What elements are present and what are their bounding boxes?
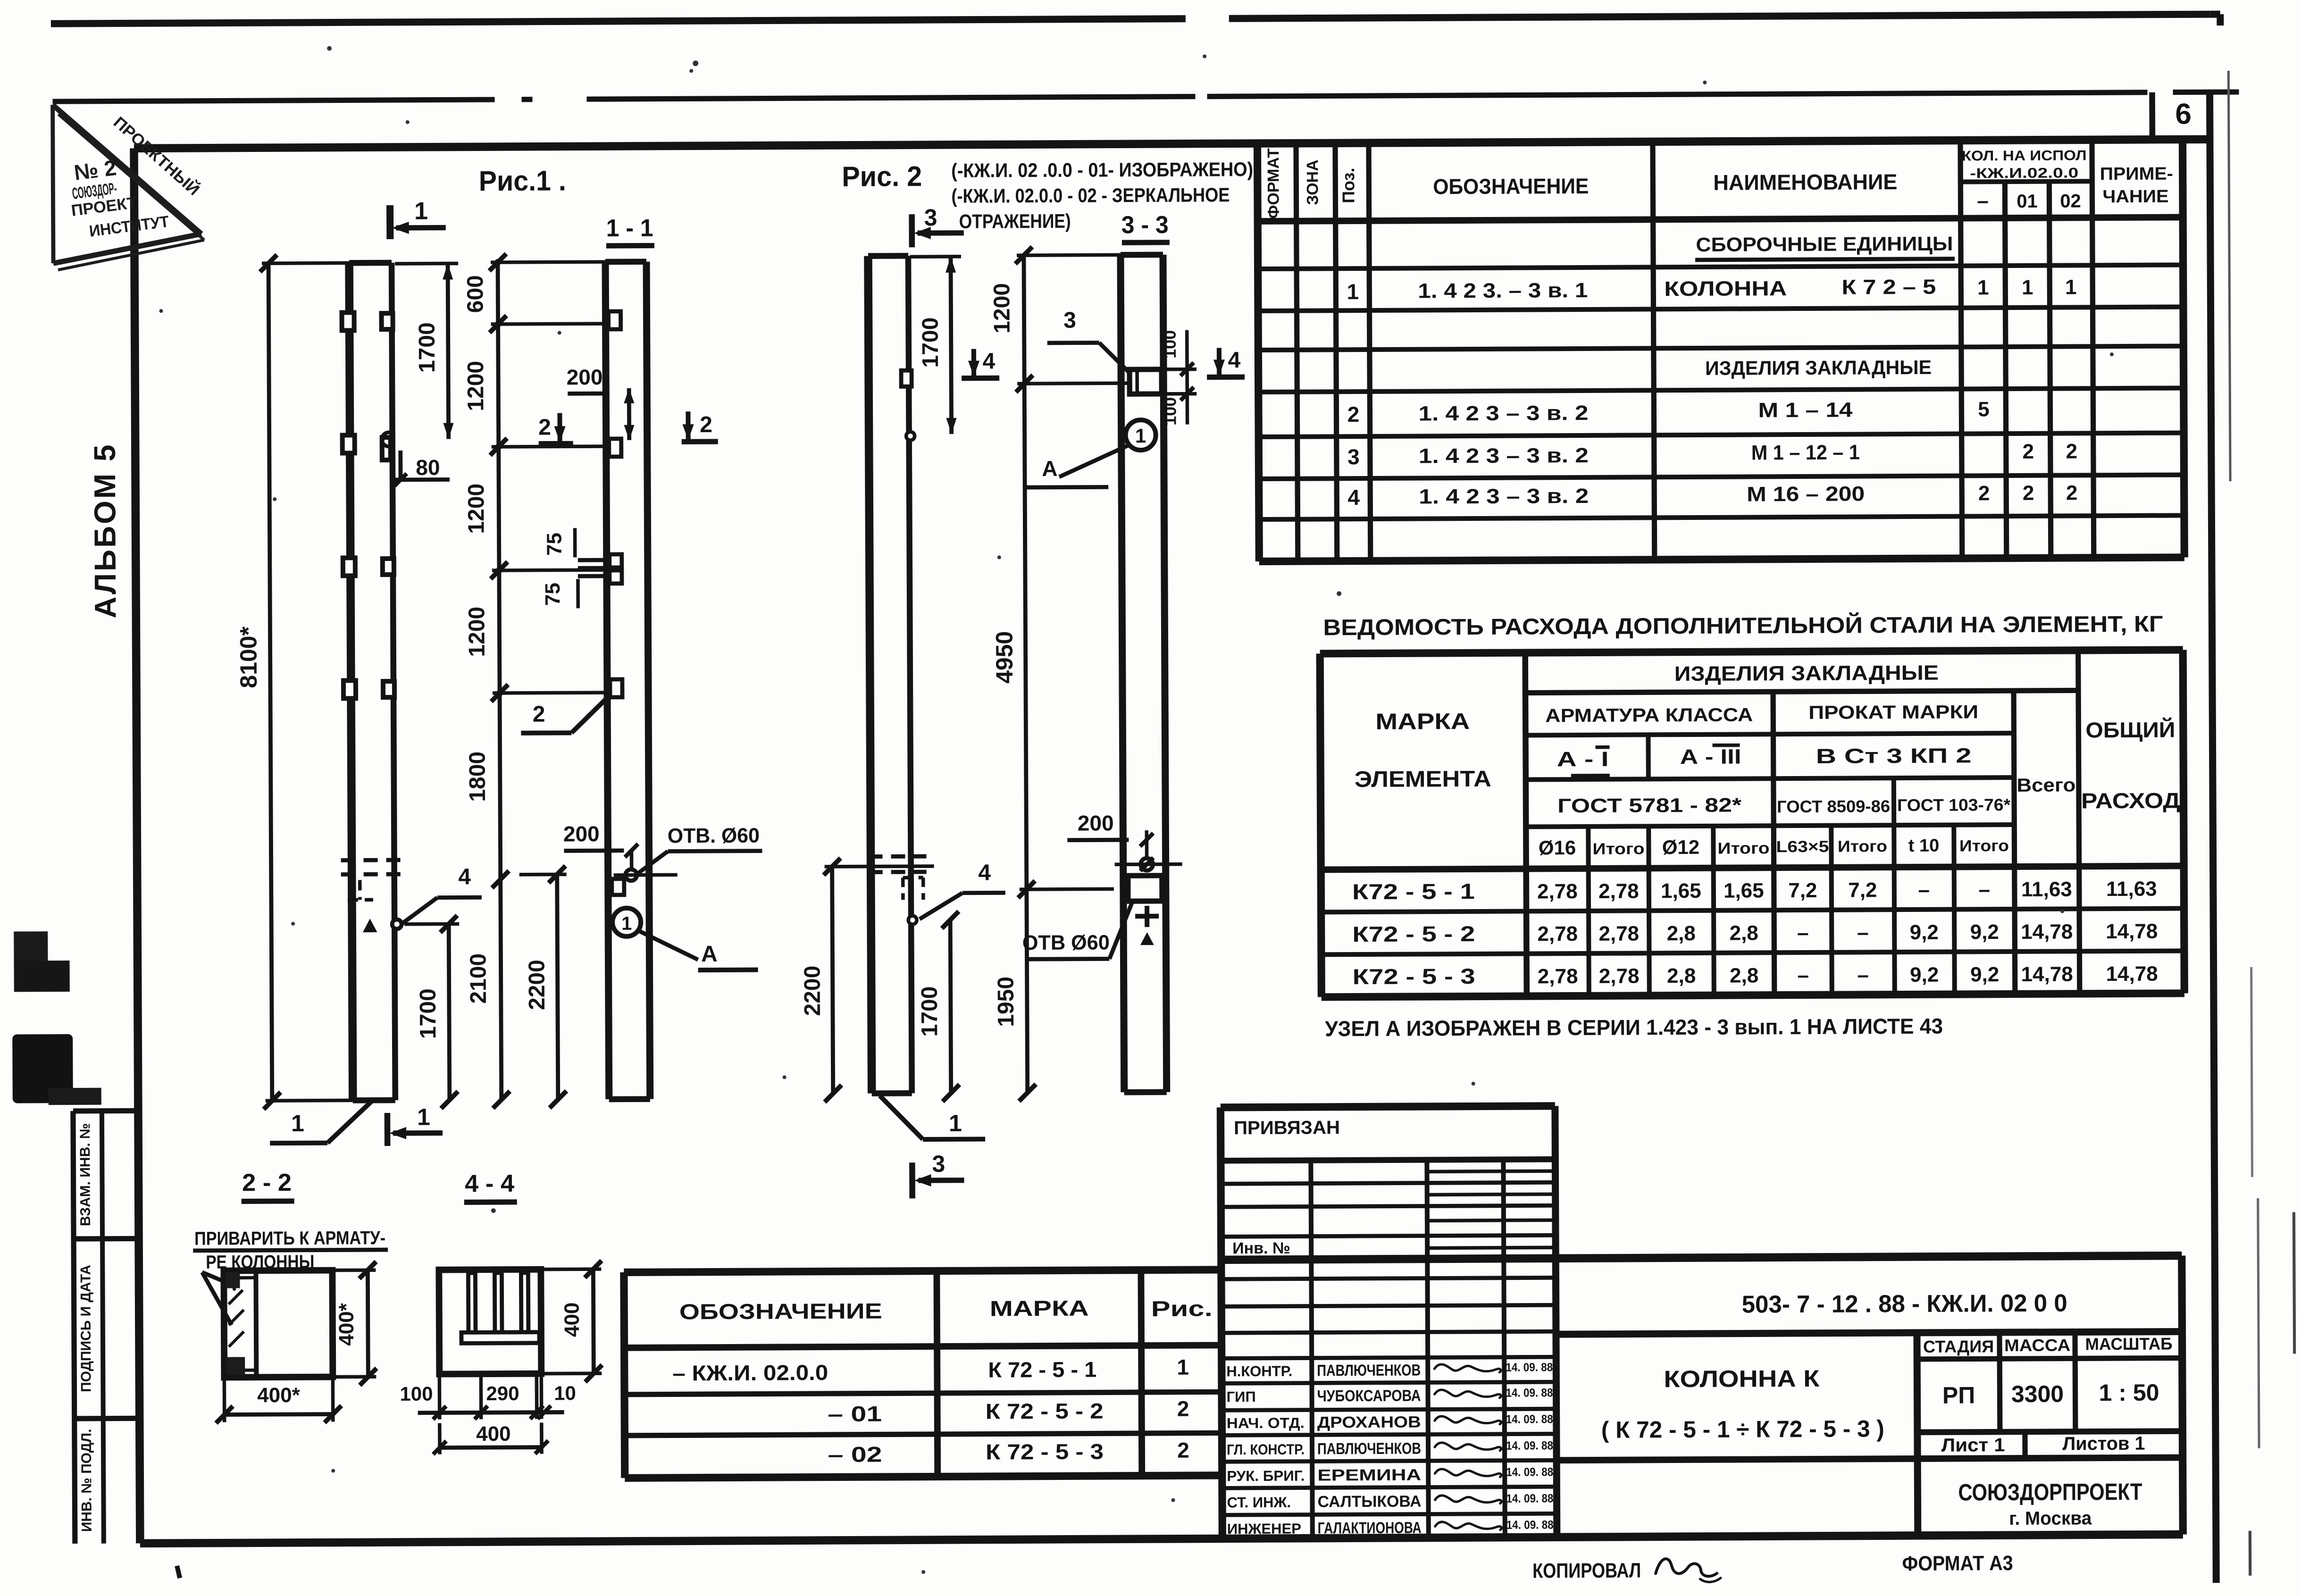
svg-text:РАСХОД: РАСХОД [2081, 788, 2180, 813]
svg-text:КОПИРОВАЛ: КОПИРОВАЛ [1532, 1559, 1641, 1582]
svg-text:ПРОКАТ МАРКИ: ПРОКАТ МАРКИ [1808, 702, 1978, 723]
svg-text:–: – [1977, 189, 1989, 212]
svg-text:1200: 1200 [989, 283, 1014, 334]
svg-text:ПРИВЯЗАН: ПРИВЯЗАН [1234, 1117, 1340, 1138]
svg-text:8100*: 8100* [235, 626, 262, 688]
svg-text:САЛТЫКОВА: САЛТЫКОВА [1317, 1493, 1421, 1511]
svg-text:4: 4 [982, 349, 995, 374]
svg-text:СТАДИЯ: СТАДИЯ [1923, 1337, 1994, 1356]
svg-text:14. 09. 88: 14. 09. 88 [1506, 1361, 1553, 1374]
svg-text:2: 2 [2023, 482, 2034, 505]
svg-text:02: 02 [2060, 191, 2081, 211]
svg-text:СБОРОЧНЫЕ ЕДИНИЦЫ: СБОРОЧНЫЕ ЕДИНИЦЫ [1696, 233, 1953, 256]
svg-text:1: 1 [1135, 425, 1146, 447]
svg-text:400*: 400* [257, 1384, 301, 1407]
svg-text:1950: 1950 [994, 977, 1019, 1027]
svg-text:80: 80 [416, 455, 440, 480]
svg-text:Н.КОНТР.: Н.КОНТР. [1226, 1363, 1292, 1380]
svg-text:01: 01 [2017, 191, 2038, 212]
svg-text:КОЛОННА: КОЛОННА [1664, 277, 1787, 301]
svg-text:14. 09. 88: 14. 09. 88 [1506, 1492, 1553, 1505]
svg-text:2 - 2: 2 - 2 [242, 1169, 292, 1196]
svg-text:РУК. БРИГ.: РУК. БРИГ. [1227, 1468, 1305, 1485]
svg-text:К 72 - 5 - 3: К 72 - 5 - 3 [986, 1439, 1104, 1464]
svg-text:Рис.: Рис. [1151, 1296, 1213, 1321]
svg-text:4: 4 [978, 860, 991, 885]
svg-text:А: А [1042, 456, 1057, 481]
svg-text:ИНВ. № ПОДЛ.: ИНВ. № ПОДЛ. [79, 1429, 95, 1532]
svg-text:200: 200 [1078, 811, 1114, 835]
svg-text:ФОРМАТ: ФОРМАТ [1264, 148, 1283, 219]
svg-text:М 16 – 200: М 16 – 200 [1747, 482, 1865, 506]
svg-text:14. 09. 88: 14. 09. 88 [1506, 1412, 1553, 1426]
svg-text:К72 - 5 - 1: К72 - 5 - 1 [1352, 879, 1475, 904]
svg-text:ПОДПИСЬ И ДАТА: ПОДПИСЬ И ДАТА [78, 1265, 94, 1392]
svg-text:К 72 - 5 - 2: К 72 - 5 - 2 [986, 1398, 1104, 1423]
svg-text:–: – [1857, 921, 1869, 944]
svg-text:1200: 1200 [464, 607, 489, 657]
svg-text:4950: 4950 [991, 631, 1017, 684]
svg-text:НАИМЕНОВАНИЕ: НАИМЕНОВАНИЕ [1713, 169, 1897, 195]
svg-text:3300: 3300 [2011, 1381, 2064, 1407]
svg-text:СОЮЗДОРПРОЕКТ: СОЮЗДОРПРОЕКТ [1958, 1479, 2142, 1506]
svg-text:К72 - 5 - 3: К72 - 5 - 3 [1353, 964, 1475, 989]
svg-text:Итого: Итого [1717, 839, 1769, 857]
svg-text:ГОСТ 8509-86: ГОСТ 8509-86 [1777, 796, 1890, 816]
svg-text:75: 75 [543, 533, 566, 556]
svg-text:ФОРМАТ А3: ФОРМАТ А3 [1902, 1552, 2013, 1575]
svg-text:2: 2 [1177, 1396, 1189, 1421]
svg-text:АРМАТУРА КЛАССА: АРМАТУРА КЛАССА [1545, 704, 1753, 726]
svg-text:2,78: 2,78 [1537, 922, 1578, 945]
svg-text:14,78: 14,78 [2106, 920, 2158, 943]
svg-text:Рис. 2: Рис. 2 [842, 160, 922, 192]
svg-text:1: 1 [417, 1104, 430, 1130]
svg-text:2: 2 [1347, 402, 1360, 426]
svg-text:2: 2 [1177, 1438, 1189, 1462]
svg-text:КОЛОННА К: КОЛОННА К [1664, 1365, 1820, 1392]
svg-text:РП: РП [1942, 1382, 1975, 1408]
svg-text:А - I: А - I [1557, 748, 1609, 771]
svg-text:Ø16: Ø16 [1539, 836, 1576, 859]
svg-text:В Ст 3 КП 2: В Ст 3 КП 2 [1816, 744, 1972, 768]
svg-text:–: – [1979, 878, 1991, 901]
svg-text:А: А [701, 942, 718, 967]
svg-text:1: 1 [949, 1110, 962, 1136]
svg-text:–: – [1857, 963, 1869, 986]
svg-text:М 1 – 14: М 1 – 14 [1758, 399, 1853, 422]
svg-text:2: 2 [2066, 440, 2077, 463]
svg-text:1700: 1700 [415, 322, 440, 373]
svg-text:ГОСТ 103-76*: ГОСТ 103-76* [1897, 795, 2010, 815]
svg-text:1700: 1700 [416, 988, 441, 1039]
svg-text:7,2: 7,2 [1848, 878, 1877, 902]
svg-text:ГАЛАКТИОНОВА: ГАЛАКТИОНОВА [1318, 1519, 1422, 1538]
svg-text:1: 1 [414, 198, 428, 225]
svg-text:5: 5 [1978, 398, 1990, 421]
svg-text:МАРКА: МАРКА [990, 1296, 1089, 1321]
svg-text:4: 4 [1228, 348, 1240, 373]
svg-text:ОБОЗНАЧЕНИЕ: ОБОЗНАЧЕНИЕ [1433, 174, 1589, 199]
svg-text:1. 4 2 3 – 3 в. 2: 1. 4 2 3 – 3 в. 2 [1419, 485, 1589, 509]
svg-text:1200: 1200 [464, 484, 489, 534]
svg-text:2: 2 [2066, 481, 2078, 504]
svg-text:ВЕДОМОСТЬ РАСХОДА ДОПОЛНИТЕЛ: ВЕДОМОСТЬ РАСХОДА ДОПОЛНИТЕЛЬНОЙ СТАЛИ Н… [1323, 611, 2163, 641]
svg-text:503- 7 - 12 . 88 - КЖ.И. 02 0: 503- 7 - 12 . 88 - КЖ.И. 02 0 0 [1742, 1290, 2067, 1319]
svg-text:– КЖ.И. 02.0.0: – КЖ.И. 02.0.0 [672, 1360, 828, 1385]
svg-text:(-КЖ.И. 02.0.0 - 02 - ЗЕРКАЛЬН: (-КЖ.И. 02.0.0 - 02 - ЗЕРКАЛЬНОЕ [951, 184, 1230, 207]
svg-text:1700: 1700 [918, 318, 943, 368]
svg-text:2,8: 2,8 [1730, 921, 1758, 944]
svg-text:4: 4 [1347, 485, 1360, 510]
svg-text:t 10: t 10 [1908, 836, 1940, 856]
svg-text:2,8: 2,8 [1667, 964, 1696, 987]
svg-text:100: 100 [400, 1383, 433, 1405]
svg-text:ЕРЕМИНА: ЕРЕМИНА [1317, 1466, 1421, 1485]
svg-text:СТ. ИНЖ.: СТ. ИНЖ. [1227, 1494, 1291, 1511]
svg-text:11,63: 11,63 [2021, 877, 2072, 901]
svg-text:9,2: 9,2 [1970, 920, 1999, 944]
svg-text:ВЗАМ. ИНВ. №: ВЗАМ. ИНВ. № [77, 1123, 93, 1227]
svg-text:290: 290 [486, 1382, 519, 1404]
svg-text:ЭЛЕМЕНТА: ЭЛЕМЕНТА [1355, 767, 1491, 792]
svg-text:3: 3 [924, 204, 937, 231]
svg-text:ПАВЛЮЧЕНКОВ: ПАВЛЮЧЕНКОВ [1317, 1440, 1421, 1458]
svg-text:– 02: – 02 [828, 1442, 882, 1467]
svg-text:6: 6 [2175, 98, 2192, 130]
svg-text:ПРИМЕ-: ПРИМЕ- [2100, 164, 2173, 184]
svg-text:2: 2 [538, 415, 551, 440]
svg-text:Всего: Всего [2017, 775, 2075, 796]
svg-text:600: 600 [463, 275, 488, 313]
svg-text:14. 09. 88: 14. 09. 88 [1506, 1518, 1554, 1531]
svg-text:-КЖ.И.02.0.0: -КЖ.И.02.0.0 [1970, 165, 2078, 181]
svg-text:Инв. №: Инв. № [1232, 1239, 1290, 1258]
svg-text:ОТВ Ø60: ОТВ Ø60 [1022, 931, 1110, 954]
svg-text:ИЗДЕЛИЯ ЗАКЛАДНЫЕ: ИЗДЕЛИЯ ЗАКЛАДНЫЕ [1674, 661, 1939, 685]
svg-text:Ø12: Ø12 [1662, 836, 1700, 858]
svg-text:1: 1 [2022, 276, 2033, 299]
svg-text:200: 200 [567, 365, 603, 389]
svg-text:М 1 – 12 – 1: М 1 – 12 – 1 [1751, 441, 1860, 464]
svg-text:L63×5: L63×5 [1776, 838, 1829, 856]
svg-text:2: 2 [533, 702, 545, 727]
svg-text:ОБЩИЙ: ОБЩИЙ [2085, 718, 2175, 743]
svg-text:КОЛ. НА ИСПОЛ: КОЛ. НА ИСПОЛ [1962, 148, 2087, 164]
svg-text:14. 09. 88: 14. 09. 88 [1506, 1439, 1553, 1452]
svg-text:9,2: 9,2 [1910, 963, 1939, 986]
svg-text:ДРОХАНОВ: ДРОХАНОВ [1317, 1413, 1421, 1432]
svg-text:2,78: 2,78 [1537, 880, 1578, 903]
svg-text:100: 100 [1160, 330, 1180, 359]
svg-text:ЗОНА: ЗОНА [1304, 159, 1322, 205]
svg-text:Итого: Итого [1959, 837, 2009, 855]
svg-text:7,2: 7,2 [1788, 879, 1817, 902]
svg-text:3: 3 [1063, 308, 1076, 333]
svg-text:Итого: Итого [1592, 840, 1644, 858]
svg-text:К 72 - 5 - 1: К 72 - 5 - 1 [988, 1357, 1096, 1382]
svg-text:2200: 2200 [524, 960, 549, 1010]
svg-text:1. 4 2 3. – 3 в. 1: 1. 4 2 3. – 3 в. 1 [1418, 279, 1588, 303]
svg-text:400*: 400* [335, 1303, 358, 1346]
svg-text:14,78: 14,78 [2021, 962, 2073, 986]
svg-text:1,65: 1,65 [1661, 879, 1701, 902]
svg-text:14. 09. 88: 14. 09. 88 [1506, 1465, 1553, 1479]
svg-text:Поз.: Поз. [1339, 167, 1358, 203]
svg-text:4: 4 [458, 864, 471, 889]
svg-text:К 7 2 – 5: К 7 2 – 5 [1841, 276, 1936, 299]
svg-text:1: 1 [2065, 276, 2077, 299]
svg-text:2,8: 2,8 [1730, 964, 1758, 987]
svg-text:3: 3 [932, 1151, 945, 1177]
svg-text:г. Москва: г. Москва [2009, 1508, 2092, 1529]
svg-text:1. 4 2 3 – 3 в. 2: 1. 4 2 3 – 3 в. 2 [1419, 444, 1589, 468]
svg-text:Лист 1: Лист 1 [1941, 1435, 2005, 1456]
svg-text:ОТВ. Ø60: ОТВ. Ø60 [668, 824, 760, 848]
svg-text:АЛЬБОМ 5: АЛЬБОМ 5 [88, 443, 123, 618]
svg-text:3: 3 [1347, 444, 1360, 469]
svg-text:2200: 2200 [800, 966, 825, 1016]
svg-text:ГЛ. КОНСТР.: ГЛ. КОНСТР. [1227, 1441, 1305, 1458]
svg-text:14. 09. 88: 14. 09. 88 [1506, 1386, 1553, 1399]
svg-text:Рис.1 .: Рис.1 . [479, 165, 566, 197]
svg-text:ОТРАЖЕНИЕ): ОТРАЖЕНИЕ) [959, 210, 1071, 233]
svg-text:200: 200 [563, 821, 600, 846]
svg-text:2,8: 2,8 [1667, 922, 1696, 945]
svg-text:14,78: 14,78 [2106, 962, 2158, 986]
svg-text:УЗЕЛ А ИЗОБРАЖЕН В СЕРИИ: УЗЕЛ А ИЗОБРАЖЕН В СЕРИИ 1.423 - 3 вып. … [1325, 1014, 1943, 1041]
svg-text:10: 10 [554, 1382, 576, 1404]
svg-text:Листов 1: Листов 1 [2062, 1433, 2145, 1454]
svg-text:ОБОЗНАЧЕНИЕ: ОБОЗНАЧЕНИЕ [679, 1298, 882, 1324]
svg-text:1: 1 [1177, 1355, 1189, 1379]
svg-text:К72 - 5 - 2: К72 - 5 - 2 [1352, 921, 1475, 946]
svg-text:–: – [1797, 921, 1809, 944]
svg-text:1: 1 [621, 913, 632, 934]
svg-text:2,78: 2,78 [1598, 922, 1639, 945]
svg-text:1700: 1700 [917, 986, 942, 1037]
svg-text:ГОСТ 5781 - 82*: ГОСТ 5781 - 82* [1557, 794, 1742, 817]
svg-text:– 01: – 01 [828, 1402, 882, 1427]
svg-text:2,78: 2,78 [1598, 879, 1639, 902]
svg-text:МАРКА: МАРКА [1375, 709, 1470, 735]
svg-text:( К 72 - 5 - 1 ÷ К 72 - 5 -: ( К 72 - 5 - 1 ÷ К 72 - 5 - 3 ) [1601, 1415, 1884, 1443]
svg-text:2: 2 [700, 412, 712, 437]
svg-text:2: 2 [2022, 440, 2034, 463]
svg-text:14,78: 14,78 [2021, 920, 2073, 943]
svg-text:ИНЖЕНЕР: ИНЖЕНЕР [1227, 1521, 1301, 1538]
svg-text:9,2: 9,2 [1970, 963, 1999, 986]
svg-text:ГИП: ГИП [1226, 1388, 1255, 1405]
svg-text:1 : 50: 1 : 50 [2099, 1379, 2159, 1406]
svg-text:9,2: 9,2 [1910, 921, 1939, 944]
svg-text:–: – [1797, 964, 1809, 987]
svg-text:3 - 3: 3 - 3 [1121, 211, 1169, 239]
svg-text:11,63: 11,63 [2106, 877, 2157, 901]
svg-text:ЧУБОКСАРОВА: ЧУБОКСАРОВА [1317, 1387, 1421, 1405]
svg-text:1: 1 [1347, 279, 1359, 304]
svg-text:1. 4 2 3 – 3 в. 2: 1. 4 2 3 – 3 в. 2 [1418, 401, 1588, 426]
svg-text:400: 400 [561, 1303, 584, 1337]
svg-text:1,65: 1,65 [1724, 879, 1764, 902]
svg-text:МАСШТАБ: МАСШТАБ [2085, 1334, 2172, 1354]
svg-text:1 - 1: 1 - 1 [606, 215, 653, 242]
svg-text:1: 1 [1977, 276, 1989, 299]
svg-text:–: – [1918, 878, 1930, 902]
svg-text:ПРИВАРИТЬ К АРМАТУ-: ПРИВАРИТЬ К АРМАТУ- [194, 1228, 385, 1249]
svg-text:4 - 4: 4 - 4 [465, 1170, 514, 1197]
svg-text:ПАВЛЮЧЕНКОВ: ПАВЛЮЧЕНКОВ [1317, 1362, 1421, 1380]
svg-text:НАЧ. ОТД.: НАЧ. ОТД. [1227, 1415, 1305, 1432]
svg-text:ИЗДЕЛИЯ ЗАКЛАДНЫЕ: ИЗДЕЛИЯ ЗАКЛАДНЫЕ [1705, 356, 1932, 379]
svg-text:100: 100 [1160, 397, 1180, 426]
svg-text:Итого: Итого [1838, 837, 1887, 855]
svg-text:1800: 1800 [465, 752, 490, 802]
svg-text:400: 400 [476, 1422, 511, 1446]
svg-text:А - III: А - III [1680, 745, 1741, 769]
svg-text:2100: 2100 [466, 953, 491, 1004]
svg-text:75: 75 [541, 583, 564, 606]
svg-text:МАССА: МАССА [2004, 1336, 2070, 1355]
svg-text:(-КЖ.И. 02 .0.0 - 01- ИЗОБРАЖЕ: (-КЖ.И. 02 .0.0 - 01- ИЗОБРАЖЕНО) [951, 158, 1253, 182]
svg-text:2,78: 2,78 [1538, 965, 1578, 988]
svg-text:2: 2 [1978, 482, 1990, 505]
svg-text:2,78: 2,78 [1599, 964, 1640, 987]
svg-text:1: 1 [291, 1110, 304, 1136]
svg-text:ЧАНИЕ: ЧАНИЕ [2102, 187, 2168, 207]
svg-text:1200: 1200 [463, 361, 488, 411]
